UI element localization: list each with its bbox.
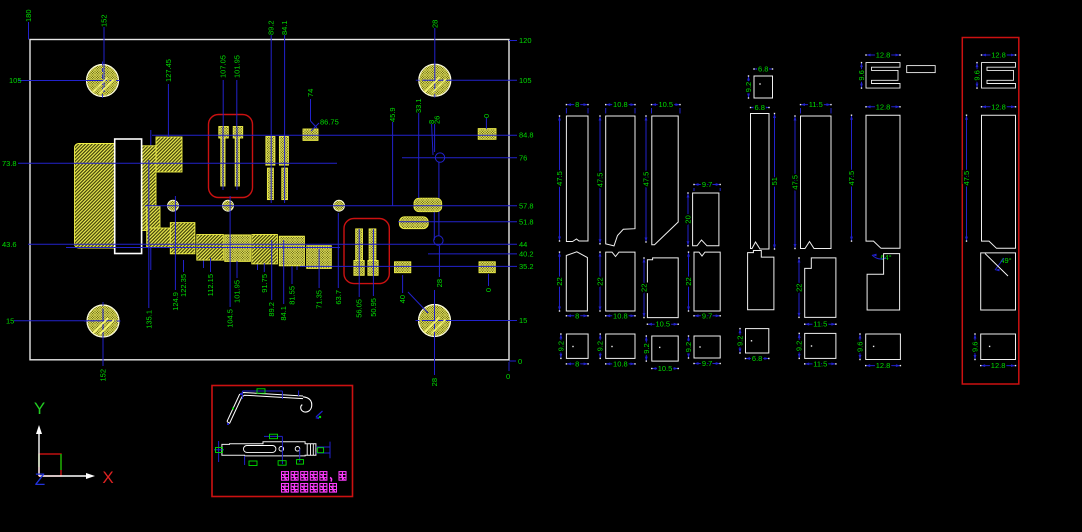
svg-text:28: 28: [430, 20, 439, 28]
datum line y135: [152, 134, 517, 136]
part bottom line y247: [66, 247, 340, 249]
dim 81.55 bottom: [291, 266, 293, 284]
col4 mid block: [694, 252, 720, 311]
col6 mid dim 22: [798, 258, 800, 317]
col5 square dim 6.8: [754, 68, 773, 70]
dim 40 bottom: [402, 275, 404, 293]
col7 E dim 12.8: [866, 54, 900, 56]
ucs red square: [39, 454, 61, 476]
svg-text:X: X: [102, 468, 113, 487]
white core plate: [115, 139, 142, 254]
svg-text:22: 22: [555, 277, 564, 285]
col5 square dim 9.2: [748, 76, 750, 98]
col1 small dim 8: [566, 363, 588, 365]
dim 101.95 bottom: [236, 261, 238, 278]
svg-text:28: 28: [435, 279, 444, 287]
label 0 below corner: [508, 362, 510, 371]
col3 top dim 10.5: [652, 104, 681, 106]
svg-text:26: 26: [433, 116, 442, 124]
svg-text:112.15: 112.15: [206, 274, 215, 296]
col1 small dim 9.2: [560, 334, 562, 358]
punch pin 3 in box 2: [356, 229, 363, 261]
svg-text:12.8: 12.8: [991, 361, 1006, 370]
rod dim marks: [241, 391, 243, 399]
dim 0 bottom: [488, 274, 490, 286]
svg-text:11.5: 11.5: [809, 100, 823, 109]
col7 dim 47.5: [851, 115, 853, 241]
svg-text:56.05: 56.05: [355, 299, 364, 318]
col6 small dim 11.5: [805, 363, 836, 365]
col8 dim 47.5: [966, 115, 968, 241]
bottom step blocks: [170, 223, 195, 254]
col2 mid dim 22: [599, 252, 601, 311]
svg-text:9.2: 9.2: [795, 341, 804, 351]
dim 56.05 bottom: [358, 229, 360, 297]
svg-text:101.95: 101.95: [232, 55, 241, 78]
col4 small dim 9.7: [694, 363, 720, 365]
red highlight column box: [962, 38, 1019, 385]
svg-text:64°: 64°: [880, 253, 891, 262]
col8 mid block: [981, 253, 1016, 310]
ucs Y axis arrow: [38, 434, 40, 476]
svg-text:10.8: 10.8: [613, 311, 628, 320]
col4 mid dim 22: [688, 252, 690, 311]
svg-text:6.8: 6.8: [755, 103, 765, 112]
col2 top dim 10.8: [606, 104, 635, 106]
svg-text:10.5: 10.5: [655, 320, 670, 329]
dim 180: [28, 22, 30, 40]
svg-text:22: 22: [795, 284, 804, 292]
svg-text:152: 152: [100, 14, 109, 27]
dim 0 top: [485, 118, 487, 129]
section col4 profile: [693, 193, 719, 246]
dim 112.15 bottom: [210, 258, 212, 272]
svg-text:6.8: 6.8: [752, 354, 762, 363]
svg-text:6.8: 6.8: [758, 65, 768, 74]
svg-text:0: 0: [518, 357, 522, 366]
svg-text:20: 20: [684, 215, 693, 223]
col3 dim 47.5: [645, 116, 647, 242]
col5 mid block: [748, 251, 774, 310]
col1 dim 47.5: [559, 116, 561, 241]
svg-text:44: 44: [519, 240, 527, 249]
col7 E section: [866, 63, 900, 89]
insert bars lower pair: [267, 168, 273, 200]
svg-text:89.2: 89.2: [267, 20, 276, 35]
plate outline: [30, 40, 509, 360]
part step block: [147, 206, 160, 247]
note text line 1: [282, 472, 289, 481]
red highlight box 1: [209, 115, 253, 198]
svg-text:9.6: 9.6: [973, 70, 982, 80]
svg-text:11.5: 11.5: [813, 320, 827, 329]
col1 small block: [566, 334, 588, 358]
svg-text:9.2: 9.2: [684, 342, 693, 352]
col1 mid block: [566, 252, 587, 311]
punch pin 1 in box 1: [219, 127, 229, 139]
svg-text:76: 76: [519, 153, 527, 162]
svg-text:9.2: 9.2: [642, 343, 651, 353]
col7 mid block: [867, 254, 900, 310]
red highlight box 2: [344, 219, 389, 284]
svg-text:22: 22: [596, 277, 605, 285]
svg-text:Y: Y: [34, 399, 45, 418]
svg-text:105: 105: [9, 76, 22, 85]
svg-text:84.1: 84.1: [279, 306, 288, 321]
corner bolt hole bottom-right: [419, 305, 451, 337]
col8 small dim 9.6: [974, 334, 976, 360]
label 120: [509, 40, 517, 42]
dim 33.1: [418, 113, 420, 198]
dim 26 small: [434, 124, 436, 152]
dim 107.05: [222, 80, 224, 127]
col3 mid dim 22: [643, 258, 645, 318]
svg-text:12.8: 12.8: [876, 102, 891, 111]
datum line y266.4: [300, 265, 517, 267]
svg-text:51.8: 51.8: [519, 218, 534, 227]
part interior lines: [150, 130, 152, 270]
svg-text:84.1: 84.1: [280, 20, 289, 35]
col8 E dim 9.6: [976, 63, 978, 89]
punch pin 2 in box 1: [233, 127, 243, 139]
svg-text:73.8: 73.8: [2, 159, 17, 168]
col2 small dim 10.8: [606, 363, 635, 365]
section col1 profile: [566, 116, 588, 242]
svg-text:101.95: 101.95: [233, 280, 242, 303]
datum line y221.8: [398, 221, 517, 223]
svg-text:127.45: 127.45: [164, 59, 173, 82]
corner bolt hole top-right: [419, 64, 451, 96]
product check red frame: [212, 386, 353, 497]
svg-text:91.75: 91.75: [260, 274, 269, 293]
dim 127.45: [167, 84, 169, 137]
col6 mid dim 11.5: [805, 323, 836, 325]
svg-text:10.8: 10.8: [613, 359, 628, 368]
svg-text:9.2: 9.2: [596, 341, 605, 351]
datum line 73.8: [18, 162, 337, 164]
svg-text:12.8: 12.8: [991, 102, 1006, 111]
col7 small dim 12.8: [866, 365, 901, 367]
part mid column: [142, 146, 156, 231]
col2 small block: [606, 334, 635, 358]
hole crosshair dashes: [84, 80, 122, 82]
svg-text:35.2: 35.2: [519, 262, 534, 271]
section col5 profile: [751, 114, 770, 250]
svg-text:47.5: 47.5: [642, 172, 651, 187]
part body big block: [75, 144, 122, 249]
col3 small dim 9.2: [645, 336, 647, 361]
col7 top dim 12.8: [866, 106, 900, 108]
svg-text:45.9: 45.9: [388, 107, 397, 122]
col4 small dim 9.2: [688, 336, 690, 358]
leader to corner hole: [408, 292, 428, 313]
col2 small dim 9.2: [599, 334, 601, 358]
dim 50.95 bottom: [372, 229, 374, 296]
dim 104.5 bottom: [229, 196, 231, 307]
col6 mid block: [805, 258, 836, 318]
hatched rest pads: [303, 129, 318, 140]
dim 45.9: [392, 122, 394, 206]
svg-text:9.7: 9.7: [702, 180, 712, 189]
dim 63.7 bottom: [337, 213, 339, 288]
svg-text:63.7: 63.7: [334, 290, 343, 305]
dim 8 small: [432, 124, 433, 155]
svg-text:9.6: 9.6: [971, 342, 980, 352]
part top-right block: [156, 137, 182, 172]
latch dims blue: [218, 441, 220, 462]
svg-text:10.8: 10.8: [613, 100, 628, 109]
svg-text:47.5: 47.5: [791, 175, 800, 190]
svg-text:84.8: 84.8: [519, 130, 534, 139]
svg-text:9.7: 9.7: [702, 359, 712, 368]
svg-text:105: 105: [519, 76, 532, 85]
svg-text:74: 74: [306, 89, 315, 97]
col3 small dim 10.5: [652, 368, 678, 370]
svg-text:8: 8: [575, 359, 579, 368]
col8 small block: [981, 334, 1016, 360]
hole centerlines: [18, 80, 104, 82]
section col6 profile: [801, 116, 832, 249]
dim 86.75 leader: [311, 123, 319, 131]
dim 101.95 top: [236, 80, 238, 127]
col4 dim 20: [687, 193, 689, 246]
svg-text:0: 0: [482, 114, 491, 118]
svg-text:81.55: 81.55: [288, 286, 297, 305]
slug blob B: [399, 217, 428, 229]
col3 small block: [652, 336, 678, 361]
wire rod diagonal: [227, 393, 303, 422]
col6 top dim 11.5: [801, 104, 832, 106]
section col7 profile: [866, 115, 900, 248]
small hatched pilot circles: [168, 200, 179, 211]
hole hatch streaks: [93, 78, 108, 93]
col5 top dim 6.8: [751, 107, 770, 109]
col8 E dim 12.8: [982, 54, 1016, 56]
svg-text:47.5: 47.5: [962, 171, 971, 186]
dim 28 bottom: [438, 246, 440, 277]
svg-text:51: 51: [770, 177, 779, 185]
col5 small block: [746, 329, 769, 353]
latch holes: [279, 447, 284, 452]
col2 mid dim 10.8: [606, 315, 635, 317]
svg-text:22: 22: [640, 284, 649, 292]
dim 89.2 bottom: [271, 240, 273, 300]
dim 122.35 bottom: [183, 260, 185, 272]
svg-text:89.2: 89.2: [267, 302, 276, 317]
section col8 profile: [982, 115, 1016, 248]
section col2 profile: [606, 116, 635, 246]
col1 top dim 8: [566, 104, 588, 106]
col5 small dim 9.2: [739, 329, 741, 353]
col6 small dim 9.2: [798, 333, 800, 358]
col4 small block: [694, 336, 720, 358]
guide bush circle B: [434, 236, 443, 245]
svg-text:86.75: 86.75: [320, 118, 339, 127]
svg-text:11.5: 11.5: [813, 359, 827, 368]
svg-text:122.35: 122.35: [179, 274, 188, 297]
col6 dim 47.5: [794, 116, 796, 249]
svg-text:9.6: 9.6: [857, 70, 866, 80]
svg-text:180: 180: [24, 9, 33, 22]
svg-text:47.5: 47.5: [555, 171, 564, 186]
svg-text:15: 15: [6, 317, 14, 326]
label 0 corner: [509, 360, 516, 362]
svg-text:40: 40: [398, 295, 407, 303]
svg-text:120: 120: [519, 36, 532, 45]
svg-text:135.1: 135.1: [144, 310, 153, 329]
col7 small dim 9.6: [859, 334, 861, 360]
insert bars upper pair: [266, 137, 275, 166]
svg-text:104.5: 104.5: [226, 309, 235, 328]
dim 135.1 bottom: [148, 160, 150, 308]
col3 mid dim 10.5: [647, 323, 678, 325]
col4 top dim 9.7: [694, 184, 720, 186]
svg-text:28: 28: [430, 378, 439, 386]
latch body outline: [222, 442, 316, 456]
dim 84.1 top: [284, 35, 286, 203]
punch pin 4 in box 2: [369, 229, 376, 261]
col7 small block: [866, 334, 901, 360]
col7 E dim 9.6: [861, 63, 863, 89]
svg-text:0: 0: [506, 372, 510, 381]
svg-text:10.5: 10.5: [658, 100, 673, 109]
svg-text:47.5: 47.5: [596, 173, 605, 188]
corner bolt hole bottom-left: [87, 305, 119, 337]
dim 71.35 bottom: [318, 249, 320, 288]
svg-text:152: 152: [99, 369, 108, 382]
col7 bar section: [907, 66, 936, 73]
svg-text:71.35: 71.35: [315, 290, 324, 309]
link lines right chain: [438, 162, 440, 236]
dim 84.1 bottom: [283, 240, 285, 304]
latch slot: [244, 446, 276, 453]
col6 small block: [805, 333, 836, 358]
col8 top dim 12.8: [982, 106, 1016, 108]
wire rod hook: [301, 397, 312, 412]
ucs X axis arrow: [39, 475, 88, 477]
dim 124.9 bottom: [174, 196, 176, 290]
col1 mid dim 22: [559, 252, 561, 311]
svg-text:12.8: 12.8: [876, 361, 891, 370]
col5 small dim 6.8: [746, 358, 769, 360]
corner bolt hole top-left: [87, 65, 119, 97]
col2 mid block: [606, 252, 635, 311]
note text line 2: [282, 484, 289, 493]
svg-text:9.2: 9.2: [556, 341, 565, 351]
svg-text:107.05: 107.05: [219, 55, 228, 78]
svg-text:9.6: 9.6: [856, 342, 865, 352]
dim 91.75 bottom: [263, 263, 265, 272]
svg-text:12.8: 12.8: [876, 51, 891, 60]
svg-text:15: 15: [519, 316, 527, 325]
guide bush circle A: [435, 153, 444, 162]
datum line y205.7: [145, 205, 517, 207]
svg-text:50.95: 50.95: [369, 298, 378, 317]
col2 dim 47.5: [599, 116, 601, 244]
datum line y244: [28, 243, 517, 245]
svg-text:33.1: 33.1: [414, 98, 423, 113]
svg-text:40.2: 40.2: [519, 250, 534, 259]
col8 small dim 12.8: [981, 365, 1016, 367]
dim 74: [310, 99, 312, 121]
svg-text:9.7: 9.7: [702, 311, 712, 320]
col5 top square: [754, 76, 773, 98]
latch cap lines: [306, 444, 308, 455]
datum line 76: [402, 157, 517, 159]
svg-text:8: 8: [575, 311, 579, 320]
svg-text:43.6: 43.6: [2, 240, 17, 249]
col1 mid dim 8: [566, 315, 588, 317]
svg-text:10.5: 10.5: [658, 364, 673, 373]
slug blob A: [414, 198, 442, 212]
svg-text:Z: Z: [35, 470, 45, 489]
dim 89.2 top: [270, 35, 272, 203]
svg-text:12.8: 12.8: [991, 51, 1006, 60]
datum line y253.9: [428, 253, 517, 255]
col8 E section: [982, 63, 1016, 89]
section col3 profile: [652, 116, 678, 245]
svg-text:57.8: 57.8: [519, 201, 534, 210]
svg-text:22: 22: [684, 277, 693, 285]
col4 mid dim 9.7: [694, 315, 720, 317]
svg-text:0: 0: [484, 288, 493, 292]
svg-text:47.5: 47.5: [847, 171, 856, 186]
col3 mid block: [647, 258, 678, 318]
svg-text:9.2: 9.2: [736, 336, 745, 346]
svg-text:9.2: 9.2: [744, 82, 753, 92]
col5 dim 51: [774, 114, 776, 250]
svg-text:8: 8: [575, 100, 579, 109]
